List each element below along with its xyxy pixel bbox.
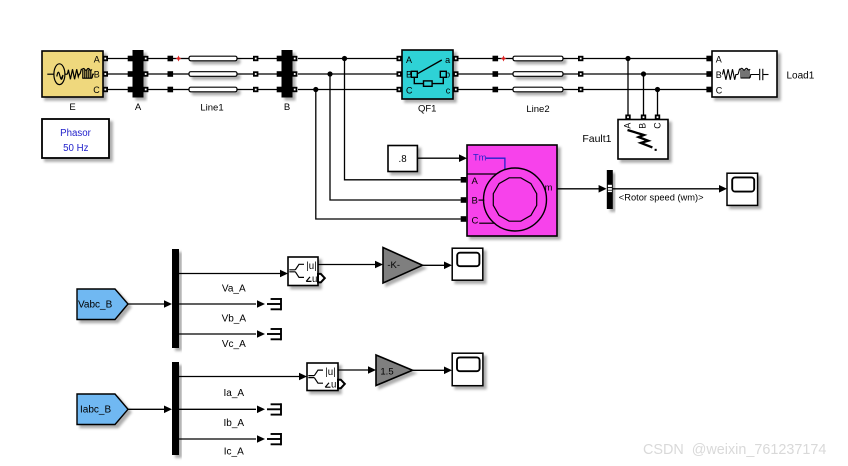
svg-text:.8: .8: [399, 154, 407, 165]
svg-text:C: C: [652, 122, 662, 129]
svg-text:C: C: [93, 85, 100, 95]
svg-text:u: u: [312, 274, 317, 285]
svg-text:Fault1: Fault1: [582, 133, 611, 145]
svg-text:Ia_A: Ia_A: [224, 388, 245, 399]
svg-text:QF1: QF1: [418, 104, 436, 115]
svg-text:C: C: [716, 86, 723, 96]
svg-text:A: A: [406, 55, 412, 65]
svg-text:-K-: -K-: [387, 260, 400, 271]
svg-text:<Rotor speed (wm)>: <Rotor speed (wm)>: [619, 193, 704, 203]
svg-text:m: m: [545, 182, 553, 192]
svg-text:B: B: [716, 70, 722, 80]
svg-text:E: E: [69, 102, 75, 113]
svg-text:B: B: [94, 69, 100, 79]
svg-text:B: B: [472, 195, 478, 206]
svg-text:50 Hz: 50 Hz: [63, 143, 88, 154]
svg-text:Tm: Tm: [473, 153, 487, 163]
svg-text:B: B: [637, 123, 647, 129]
svg-text:1.5: 1.5: [380, 366, 393, 377]
svg-text:|u|: |u|: [306, 261, 316, 272]
svg-text:Load1: Load1: [787, 70, 815, 81]
svg-text:Line2: Line2: [526, 104, 549, 115]
svg-text:Ib_A: Ib_A: [224, 418, 245, 429]
svg-text:A: A: [623, 123, 633, 129]
svg-text:a: a: [445, 55, 450, 65]
svg-text:B: B: [284, 102, 290, 113]
svg-text:|u|: |u|: [325, 367, 335, 378]
svg-text:C: C: [406, 85, 413, 95]
svg-text:Iabc_B: Iabc_B: [80, 405, 111, 416]
svg-text:Vabc_B: Vabc_B: [78, 300, 113, 311]
svg-text:Vb_A: Vb_A: [222, 313, 247, 324]
svg-text:A: A: [472, 176, 479, 187]
svg-text:A: A: [94, 54, 100, 64]
svg-text:Line1: Line1: [200, 103, 223, 114]
svg-text:C: C: [472, 215, 479, 226]
svg-text:c: c: [446, 85, 451, 95]
svg-text:Va_A: Va_A: [222, 284, 246, 295]
svg-text:Phasor: Phasor: [60, 128, 91, 139]
svg-text:Ic_A: Ic_A: [224, 447, 244, 458]
svg-text:A: A: [716, 55, 722, 65]
svg-text:u: u: [331, 380, 336, 391]
svg-text:A: A: [135, 102, 142, 113]
svg-text:Vc_A: Vc_A: [222, 339, 246, 350]
svg-text:CSDN @weixin_761237174: CSDN @weixin_761237174: [643, 442, 826, 458]
